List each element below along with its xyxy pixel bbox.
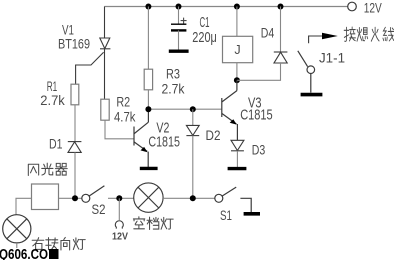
- node dot J/D4/V3 collector: [234, 77, 240, 83]
- node dot D1/flasher/S2: [72, 195, 78, 201]
- diode D1: [68, 142, 82, 153]
- wire D1 to flasher node: [74, 152, 76, 198]
- wire: +12V top rail: [104, 6, 347, 8]
- switch S2: [82, 186, 105, 203]
- label 空档灯 (neutral lamp): [133, 217, 173, 230]
- wire stub below turn lamp: [16, 243, 18, 248]
- wire S2 to lamp2: [108, 197, 134, 199]
- node dot rail/R3: [145, 4, 151, 10]
- svg-text:12V: 12V: [364, 1, 382, 16]
- label 接熄火线 (to kill wire): [344, 27, 394, 41]
- label 右转向灯 (right turn lamp): [32, 237, 85, 250]
- wire flasher to S2 node: [59, 197, 82, 199]
- svg-text:C1815: C1815: [148, 133, 180, 150]
- svg-text:R2: R2: [116, 93, 130, 109]
- diode D3: [231, 140, 244, 151]
- label 闪光器 (flasher): [28, 163, 67, 175]
- terminal: 12V supply: [348, 2, 357, 11]
- svg-text:BT169: BT169: [58, 35, 90, 51]
- ground S1: [244, 212, 260, 216]
- svg-text:D2: D2: [206, 127, 221, 143]
- kill-wire arrow (to flame-out wire): [309, 36, 323, 43]
- transistor V3: [222, 80, 238, 140]
- C1 plus sign: [181, 18, 187, 24]
- resistor R3: [147, 7, 149, 70]
- watermark Q606.COM: [0, 247, 48, 260]
- lamp right-turn (X circle): [3, 215, 31, 243]
- transistor V2: [134, 109, 148, 167]
- svg-text:12V: 12V: [112, 230, 128, 242]
- ground J1-1: [301, 93, 323, 97]
- wire S1 fixed contact to ground: [240, 198, 251, 212]
- V2 emitter arrow: [141, 147, 148, 152]
- wire flasher to turn lamp: [16, 198, 32, 215]
- resistor R2: [101, 99, 109, 120]
- wire base line V2->V3: [148, 108, 221, 110]
- diode D2: [192, 109, 194, 125]
- relay contact J1-1: [298, 51, 315, 93]
- node dot D2 bottom: [190, 195, 196, 201]
- flasher box: [32, 184, 59, 210]
- ground D3: [228, 167, 247, 170]
- ground V2 emitter: [140, 167, 158, 170]
- node dot D2 top: [190, 106, 196, 112]
- svg-text:C1815: C1815: [240, 106, 273, 123]
- diode D4: [280, 7, 282, 53]
- svg-text:2.7k: 2.7k: [40, 92, 65, 108]
- svg-text:D1: D1: [49, 135, 63, 151]
- switch S1: [215, 187, 236, 202]
- thyristor V1: [76, 7, 111, 100]
- V3 emitter arrow: [230, 119, 237, 124]
- relay coil J: [236, 7, 238, 37]
- wire lamp2 to S1: [163, 197, 215, 199]
- svg-text:220μ: 220μ: [192, 29, 217, 46]
- svg-text:2.7k: 2.7k: [162, 81, 186, 97]
- node dot rail/J: [234, 4, 240, 10]
- node dot R3/V2 collector: [145, 106, 151, 112]
- svg-text:D3: D3: [252, 142, 266, 158]
- node dot rail/D4: [278, 4, 284, 10]
- resistor R1: [71, 84, 79, 105]
- node dot rail/C1: [176, 4, 182, 10]
- wire R2 to V2 base: [105, 120, 134, 139]
- 12V bottom terminal: [118, 198, 120, 220]
- svg-text:J1-1: J1-1: [319, 50, 345, 66]
- lamp neutral (X circle): [134, 183, 163, 212]
- svg-text:J: J: [234, 43, 240, 57]
- svg-text:4.7k: 4.7k: [114, 109, 136, 125]
- svg-text:R3: R3: [166, 65, 180, 81]
- wire R1 to D1: [74, 105, 76, 142]
- capacitor C1: [178, 7, 180, 25]
- node dot 12V feed: [116, 195, 122, 201]
- svg-text:Q606.CO: Q606.CO: [0, 247, 48, 260]
- svg-text:S1: S1: [220, 207, 232, 223]
- svg-text:D4: D4: [261, 25, 275, 41]
- svg-text:S2: S2: [92, 201, 106, 217]
- ground C1: [169, 50, 189, 53]
